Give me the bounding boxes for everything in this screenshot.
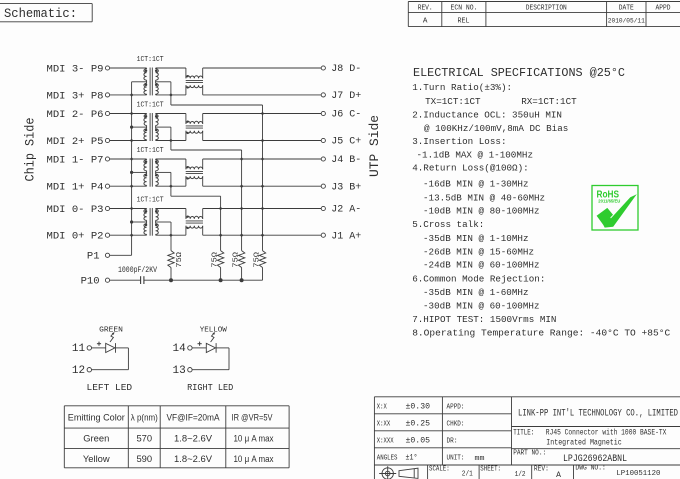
svg-text:REV.: REV. (418, 5, 433, 13)
wire primary center tap (132, 221, 147, 223)
svg-text:4.Return Loss(@100Ω):: 4.Return Loss(@100Ω): (412, 163, 529, 174)
svg-text:75Ω: 75Ω (211, 251, 219, 267)
svg-text:J5 C+: J5 C+ (331, 137, 361, 148)
transformer T2 (144, 113, 158, 141)
LED D2 yellow, pins 14/13 (187, 327, 233, 393)
svg-text:2011/65/EU: 2011/65/EU (598, 198, 621, 203)
svg-text:X:X: X:X (377, 404, 387, 412)
wire (203, 208, 322, 210)
svg-text:mm: mm (475, 455, 486, 463)
svg-text:11: 11 (72, 343, 86, 355)
svg-text:J3 B+: J3 B+ (331, 182, 361, 193)
svg-text:J7 D+: J7 D+ (331, 91, 361, 102)
wire (203, 67, 322, 69)
pin P4 (105, 184, 109, 188)
wire secondary bottom (156, 234, 186, 236)
wire secondary top (156, 208, 186, 210)
wire center-tap bus (131, 82, 133, 256)
projection symbol (379, 466, 418, 479)
svg-text:VF@IF=20mA: VF@IF=20mA (167, 412, 221, 423)
svg-text:SCALE:: SCALE: (429, 465, 450, 473)
pin J8 (321, 66, 325, 70)
pin P8 (105, 93, 109, 97)
svg-text:3.Insertion Loss:: 3.Insertion Loss: (412, 136, 506, 147)
wire (203, 234, 322, 236)
svg-text:75Ω: 75Ω (232, 251, 240, 267)
svg-text:1.Turn Ratio(±3%):: 1.Turn Ratio(±3%): (412, 82, 512, 93)
pin J4 (321, 157, 325, 161)
pin J1 (321, 233, 325, 237)
pin J7 (321, 93, 325, 97)
pin P1 (105, 253, 109, 257)
svg-text:1CT:1CT: 1CT:1CT (137, 102, 164, 110)
svg-text:DATE: DATE (619, 5, 634, 13)
resistor R1 75ohm (168, 251, 184, 281)
svg-text:±0.05: ±0.05 (406, 437, 431, 446)
pin P10 (105, 278, 109, 282)
transformer T3 (144, 159, 158, 187)
wire primary center tap (132, 81, 147, 83)
svg-text:MDI 0+ P2: MDI 0+ P2 (47, 231, 104, 243)
svg-text:APPD:: APPD: (447, 404, 465, 412)
svg-text:2010/05/11: 2010/05/11 (608, 17, 645, 24)
svg-text:TITLE:: TITLE: (513, 430, 534, 438)
title block texts (377, 403, 678, 479)
svg-text:MDI 1- P7: MDI 1- P7 (47, 154, 104, 166)
wire primary center tap (132, 126, 147, 128)
svg-text:REV:: REV: (534, 465, 549, 473)
svg-text:10 μ A max: 10 μ A max (234, 453, 274, 464)
svg-text:CHKD:: CHKD: (447, 421, 465, 429)
svg-text:1CT:1CT: 1CT:1CT (137, 56, 164, 64)
svg-text:J2 A-: J2 A- (331, 205, 361, 216)
svg-text:5.Cross talk:: 5.Cross talk: (412, 219, 484, 230)
svg-text:P10: P10 (81, 276, 100, 288)
svg-text:ANGLES: ANGLES (377, 455, 398, 463)
junction marks (130, 93, 264, 237)
svg-text:RX=1CT:1CT: RX=1CT:1CT (521, 96, 577, 107)
svg-text:DR:: DR: (447, 438, 458, 446)
wire (110, 185, 147, 187)
svg-text:MDI 2+ P5: MDI 2+ P5 (47, 136, 104, 148)
svg-text:±0.25: ±0.25 (406, 420, 431, 429)
svg-text:1.8~2.6V: 1.8~2.6V (174, 453, 213, 464)
svg-text:J4 B-: J4 B- (331, 155, 361, 166)
wire secondary bottom (156, 94, 186, 96)
wire secondary center tap T4 (156, 221, 171, 223)
svg-text:8.Operating Temperature Range:: 8.Operating Temperature Range: -40°C TO … (412, 328, 670, 339)
wire secondary center tap T1 (156, 81, 171, 83)
svg-text:Yellow: Yellow (83, 453, 110, 464)
svg-text:14: 14 (172, 343, 186, 355)
svg-text:-30dB MIN @ 60-100MHz: -30dB MIN @ 60-100MHz (423, 300, 540, 311)
svg-text:UNIT:: UNIT: (447, 455, 465, 463)
wire (203, 113, 322, 115)
svg-text:-26dB MIN @ 15-60MHz: -26dB MIN @ 15-60MHz (423, 246, 534, 257)
resistor R4 75ohm (253, 251, 265, 281)
svg-text:-35dB MIN @ 1-10MHz: -35dB MIN @ 1-10MHz (423, 233, 529, 244)
svg-text:λ p(nm): λ p(nm) (131, 412, 158, 423)
svg-text:A: A (423, 18, 428, 26)
svg-text:SHEET:: SHEET: (480, 465, 501, 473)
RoHS logo (592, 186, 638, 231)
svg-text:-24dB MIN @ 60-100MHz: -24dB MIN @ 60-100MHz (423, 260, 540, 271)
svg-text:MDI 0- P3: MDI 0- P3 (47, 204, 104, 216)
svg-text:±1°: ±1° (406, 454, 418, 463)
svg-text:2/1: 2/1 (462, 471, 473, 479)
common-mode choke L4 (186, 209, 203, 236)
wire (110, 158, 147, 160)
pin P6 (105, 111, 109, 115)
svg-text:LPJG26962ABNL: LPJG26962ABNL (563, 454, 627, 465)
svg-text:ECN NO.: ECN NO. (451, 5, 478, 13)
svg-text:-13.5dB MIN @ 40-60MHz: -13.5dB MIN @ 40-60MHz (423, 193, 545, 204)
svg-text:1/2: 1/2 (515, 471, 526, 479)
schematic title box (0, 4, 92, 22)
svg-text:2.Inductance OCL: 350uH MIN: 2.Inductance OCL: 350uH MIN (412, 109, 562, 120)
svg-text:Chip Side: Chip Side (24, 118, 38, 182)
pin P7 (105, 157, 109, 161)
wire secondary bottom (156, 185, 186, 187)
wire secondary center tap T2 (156, 126, 171, 128)
wire (203, 158, 322, 160)
LED D1 green, pins 11/12 (87, 327, 133, 393)
svg-text:75Ω: 75Ω (253, 251, 261, 267)
svg-text:MDI 3+ P8: MDI 3+ P8 (47, 90, 104, 102)
svg-text:1000pF/2KV: 1000pF/2KV (118, 266, 157, 275)
svg-text:1CT:1CT: 1CT:1CT (137, 197, 164, 205)
svg-text:RJ45 Connector with 1000 BASE-: RJ45 Connector with 1000 BASE-TX (546, 428, 667, 438)
wire (110, 234, 147, 236)
common-mode choke L1 (186, 68, 203, 95)
revision table (408, 2, 680, 27)
title block (374, 397, 680, 479)
svg-text:DESCRIPTION: DESCRIPTION (526, 5, 567, 13)
wire (110, 67, 147, 69)
pin P5 (105, 138, 109, 142)
svg-text:±0.30: ±0.30 (406, 403, 431, 412)
svg-text:MDI 2- P6: MDI 2- P6 (47, 109, 104, 121)
wire (203, 185, 322, 187)
svg-text:1CT:1CT: 1CT:1CT (137, 147, 164, 155)
svg-text:LEFT LED: LEFT LED (87, 382, 133, 393)
svg-text:RIGHT LED: RIGHT LED (187, 382, 233, 393)
svg-text:A: A (556, 471, 561, 479)
common-mode choke L3 (186, 159, 203, 186)
pin J5 (321, 138, 325, 142)
wire (110, 279, 141, 281)
svg-text:J8 D-: J8 D- (331, 64, 361, 75)
svg-text:PART NO.:: PART NO.: (513, 450, 546, 458)
transformer T4 (144, 208, 158, 236)
common-mode choke L2 (186, 114, 203, 141)
pin P3 (105, 206, 109, 210)
wire secondary bottom (156, 140, 186, 142)
wire secondary top (156, 113, 186, 115)
svg-text:REL: REL (458, 18, 470, 26)
svg-text:Emitting Color: Emitting Color (68, 412, 125, 423)
wire secondary top (156, 67, 186, 69)
svg-text:75Ω: 75Ω (176, 251, 184, 267)
pin J3 (321, 184, 325, 188)
svg-text:@ 100KHz/100mV,8mA DC Bias: @ 100KHz/100mV,8mA DC Bias (424, 123, 568, 134)
svg-text:-35dB MIN @ 1-60MHz: -35dB MIN @ 1-60MHz (423, 287, 529, 298)
svg-text:GREEN: GREEN (99, 327, 123, 335)
svg-text:UTP Side: UTP Side (368, 115, 382, 177)
svg-text:Schematic:: Schematic: (4, 6, 77, 21)
resistor R3 75ohm (232, 251, 244, 281)
svg-text:J1 A+: J1 A+ (331, 231, 361, 242)
svg-text:LINK-PP INT'L TECHNOLOGY CO.,: LINK-PP INT'L TECHNOLOGY CO., LIMITED (518, 407, 678, 418)
svg-text:10 μ A max: 10 μ A max (234, 433, 274, 444)
LED parameter table (64, 406, 289, 468)
svg-text:LP10051120: LP10051120 (616, 470, 660, 478)
pin J2 (321, 206, 325, 210)
pin P2 (105, 233, 109, 237)
wire (203, 140, 322, 142)
pin P9 (105, 66, 109, 70)
capacitor C1 1000pF/2KV (118, 266, 157, 284)
transformer T1 (144, 68, 158, 96)
svg-text:Green: Green (83, 433, 109, 444)
svg-text:6.Common Mode Rejection:: 6.Common Mode Rejection: (412, 274, 545, 285)
svg-text:APPD: APPD (656, 5, 671, 13)
svg-text:-1.1dB MAX @ 1-100MHz: -1.1dB MAX @ 1-100MHz (417, 149, 534, 160)
svg-text:-10dB MIN @ 80-100MHz: -10dB MIN @ 80-100MHz (423, 206, 540, 217)
svg-text:DWG NO.:: DWG NO.: (575, 465, 605, 473)
pin J6 (321, 111, 325, 115)
svg-text:MDI 3- P9: MDI 3- P9 (47, 63, 104, 75)
svg-text:MDI 1+ P4: MDI 1+ P4 (47, 182, 104, 194)
wire ground rail (144, 279, 263, 281)
wire (110, 208, 147, 210)
svg-text:590: 590 (136, 453, 152, 464)
wire secondary center tap T3 (156, 171, 171, 173)
svg-text:P1: P1 (87, 251, 100, 263)
svg-text:TX=1CT:1CT: TX=1CT:1CT (425, 96, 481, 107)
resistor R2 75ohm (211, 251, 223, 281)
wire (203, 94, 322, 96)
svg-text:12: 12 (72, 365, 85, 377)
svg-text:Integrated Magnetic: Integrated Magnetic (546, 437, 621, 447)
wire (110, 94, 147, 96)
svg-text:1.8~2.6V: 1.8~2.6V (174, 433, 213, 444)
svg-text:570: 570 (136, 433, 152, 444)
svg-text:X:XX: X:XX (377, 421, 391, 429)
svg-text:ELECTRICAL SPECFICATIONS @25°C: ELECTRICAL SPECFICATIONS @25°C (413, 66, 625, 80)
svg-text:X:XXX: X:XXX (377, 438, 394, 446)
svg-text:IR @VR=5V: IR @VR=5V (232, 412, 274, 423)
wire secondary top (156, 158, 186, 160)
wire (110, 113, 147, 115)
electrical specifications text (412, 66, 670, 339)
svg-text:J6 C-: J6 C- (331, 110, 361, 121)
svg-text:-16dB MIN @ 1-30MHz: -16dB MIN @ 1-30MHz (423, 179, 529, 190)
wire (110, 140, 147, 142)
svg-text:13: 13 (172, 365, 185, 377)
wire primary center tap (132, 171, 147, 173)
svg-text:7.HIPOT TEST: 1500Vrms MIN: 7.HIPOT TEST: 1500Vrms MIN (412, 314, 556, 325)
